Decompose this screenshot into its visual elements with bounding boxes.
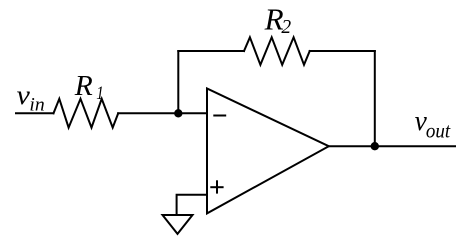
wire: output bbox=[329, 145, 455, 147]
label R1 bbox=[74, 70, 104, 104]
label R2 bbox=[264, 2, 292, 38]
op-amp inverting input minus sign bbox=[214, 115, 225, 117]
wire: feedback riser from junction up bbox=[177, 51, 179, 113]
svg-text:v: v bbox=[17, 80, 30, 110]
op-amp U1 bbox=[207, 89, 329, 214]
node: junction at inverting input bbox=[174, 109, 182, 117]
wire: input from v_in to resistor R1 bbox=[16, 112, 54, 114]
label v_out bbox=[415, 106, 452, 143]
wire: R2 to right feedback corner bbox=[310, 50, 375, 52]
svg-text:2: 2 bbox=[281, 17, 291, 38]
wire: non-inverting input to ground bbox=[177, 195, 207, 215]
svg-text:in: in bbox=[29, 95, 44, 116]
svg-text:out: out bbox=[426, 119, 451, 143]
wire: feedback top left to R2 bbox=[178, 50, 244, 52]
wire: R1 to inverting input of op-amp bbox=[118, 112, 207, 114]
wire: feedback drop to output node bbox=[374, 51, 376, 146]
resistor R2 bbox=[244, 37, 310, 65]
resistor R1 bbox=[54, 99, 119, 128]
label v_in bbox=[17, 80, 45, 116]
ground bbox=[163, 215, 193, 234]
svg-text:1: 1 bbox=[96, 83, 104, 104]
node: junction at output bbox=[371, 142, 379, 150]
op-amp non-inverting input plus sign bbox=[211, 181, 222, 192]
svg-text:R: R bbox=[74, 70, 93, 102]
